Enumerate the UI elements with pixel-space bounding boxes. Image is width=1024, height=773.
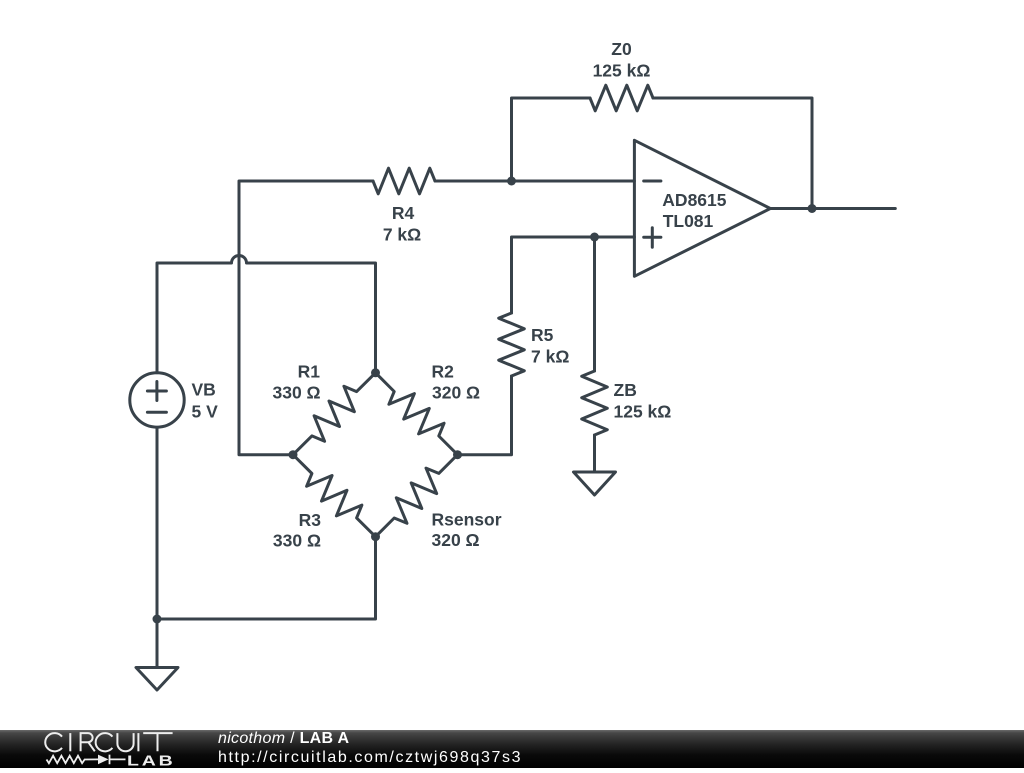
label Z0 125 kohm xyxy=(593,39,651,81)
svg-text:Rsensor: Rsensor xyxy=(432,510,502,530)
ground symbol at VB xyxy=(136,668,178,691)
junction bridge top node xyxy=(371,368,380,377)
svg-text:125 kΩ: 125 kΩ xyxy=(593,61,651,81)
schematic url xyxy=(218,749,522,766)
resistor R2 xyxy=(376,373,458,455)
label VB 5 V xyxy=(192,380,219,422)
label R5 7 kohm xyxy=(531,325,569,367)
attribution text xyxy=(218,730,349,747)
wire Z0 right to output node xyxy=(653,98,812,209)
label ZB 125 kohm xyxy=(614,380,672,421)
resistor R1 xyxy=(293,373,376,455)
resistor R4 xyxy=(373,168,435,194)
svg-text:7 kΩ: 7 kΩ xyxy=(383,225,421,245)
svg-text:7 kΩ: 7 kΩ xyxy=(531,347,569,367)
svg-text:R4: R4 xyxy=(392,203,415,223)
junction ground rail node xyxy=(153,615,162,624)
svg-text:ZB: ZB xyxy=(614,380,637,400)
footer bar xyxy=(0,730,1024,768)
resistor R5 xyxy=(499,313,525,376)
svg-text:5 V: 5 V xyxy=(192,402,219,422)
label Rsensor 320 ohm xyxy=(432,510,502,551)
label R3 330 ohm xyxy=(273,510,321,551)
op-amp U1 xyxy=(634,140,770,276)
svg-text:Z0: Z0 xyxy=(611,39,632,59)
wire R4 to op-amp inverting input xyxy=(435,180,634,183)
svg-text:330 Ω: 330 Ω xyxy=(273,383,321,403)
label R4 7 kohm xyxy=(383,203,421,245)
CircuitLab logo xyxy=(0,730,200,768)
junction bridge bottom node xyxy=(371,532,380,541)
svg-text:R2: R2 xyxy=(432,362,455,382)
label R2 320 ohm xyxy=(432,362,481,403)
svg-text:AD8615: AD8615 xyxy=(662,190,726,210)
wire ZB to ground xyxy=(593,435,596,472)
junction output node xyxy=(808,204,817,213)
svg-text:R3: R3 xyxy=(299,510,322,530)
wire VB plus to bridge top node (hop over vertical wire) xyxy=(157,256,376,373)
junction noninverting node xyxy=(590,233,599,242)
voltage source VB xyxy=(130,373,184,427)
junction bridge left node xyxy=(289,450,298,459)
svg-text:R5: R5 xyxy=(531,325,554,345)
svg-text:TL081: TL081 xyxy=(663,211,714,231)
label R1 330 ohm xyxy=(273,362,321,403)
wire ZB top lead xyxy=(593,237,596,371)
wire bridge right node to R5 bottom xyxy=(458,376,512,455)
label op-amp AD8615 TL081 xyxy=(662,190,726,231)
svg-text:125 kΩ: 125 kΩ xyxy=(614,401,672,421)
resistor Rsensor xyxy=(376,455,458,537)
ground symbol at ZB xyxy=(574,472,616,495)
resistor R3 xyxy=(293,455,376,537)
junction bridge right node xyxy=(453,450,462,459)
resistor Z0 xyxy=(590,85,653,111)
wire R5 top to op-amp noninverting input xyxy=(512,237,635,313)
svg-text:LAB: LAB xyxy=(127,752,176,768)
svg-text:R1: R1 xyxy=(298,362,321,382)
resistor ZB xyxy=(582,371,608,435)
svg-text:320 Ω: 320 Ω xyxy=(432,383,480,403)
svg-text:330 Ω: 330 Ω xyxy=(273,531,321,551)
wire op-amp output xyxy=(770,207,895,210)
svg-text:320 Ω: 320 Ω xyxy=(432,530,480,550)
wire VB minus to ground rail and bridge bottom node xyxy=(157,427,376,619)
junction inverting node xyxy=(507,177,516,186)
svg-text:VB: VB xyxy=(192,380,216,400)
wire VB ground stub xyxy=(156,619,159,668)
wire Z0 left riser xyxy=(512,98,591,181)
wire R4 left lead down to bridge left node xyxy=(239,181,373,455)
